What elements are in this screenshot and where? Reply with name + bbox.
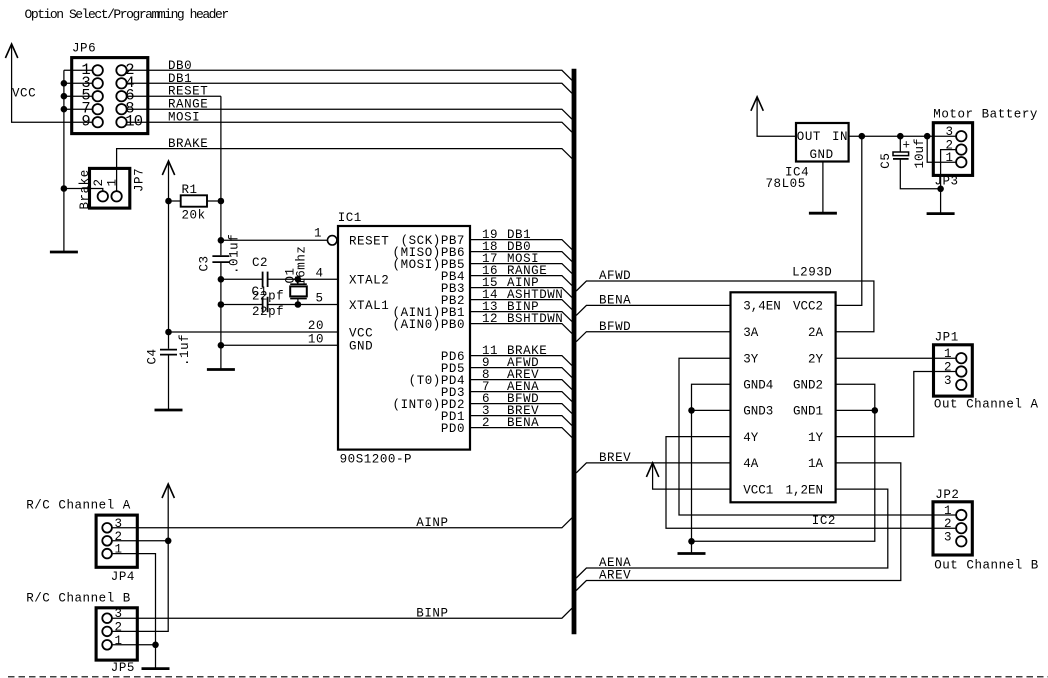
junction JP6 pin7 on ground rail xyxy=(61,106,68,113)
wire IC1 pin 16 RANGE to bus xyxy=(470,276,572,286)
wire IC1 pin 17 MOSI to bus xyxy=(470,264,572,274)
svg-text:IN: IN xyxy=(832,130,848,144)
C1 left plate xyxy=(262,297,264,312)
svg-text:AREV: AREV xyxy=(599,569,631,583)
op IC2 L293D motor driver xyxy=(731,292,836,502)
svg-text:JP4: JP4 xyxy=(111,570,135,584)
svg-text:GND: GND xyxy=(349,340,373,354)
svg-text:GND3: GND3 xyxy=(743,405,773,419)
svg-text:4: 4 xyxy=(315,266,323,280)
connector JP6 (Option Select/Programming header) xyxy=(72,58,148,134)
wire IC2 GND4/GND3 to ground xyxy=(692,384,731,553)
wire JP4 pin 2 to VCC rail xyxy=(112,540,168,542)
svg-text:12: 12 xyxy=(482,312,498,326)
ground symbol below IC2 xyxy=(678,552,706,555)
wire GND to IC1 pin 10 xyxy=(221,344,338,346)
wire IC2 2Y to JP1 pin 1 xyxy=(836,357,957,359)
power symbol VCC at IC4 OUT xyxy=(751,97,763,111)
svg-text:9: 9 xyxy=(81,113,90,131)
svg-text:GND2: GND2 xyxy=(793,379,823,393)
svg-text:BREV: BREV xyxy=(599,451,631,465)
svg-text:20: 20 xyxy=(308,319,324,333)
svg-text:2: 2 xyxy=(115,620,123,634)
wire MOSI from JP6 pin 10 to bus xyxy=(127,122,572,132)
wire BENA from bus to IC2 3,4EN xyxy=(576,305,730,315)
junction IC1 GND pin10 xyxy=(218,342,225,349)
svg-text:PD0: PD0 xyxy=(441,422,465,436)
ground symbol below IC4 xyxy=(809,212,837,215)
ground symbol below C4 xyxy=(155,409,183,412)
C1 right plate xyxy=(267,297,269,312)
wire JP5 pin 1 to ground xyxy=(112,644,156,646)
wire R1 right lead to RESET rail xyxy=(207,200,221,202)
svg-text:2: 2 xyxy=(944,517,952,531)
C5 top lead xyxy=(899,136,901,152)
junction RESET to IC1 xyxy=(218,237,225,244)
wire RESET to IC1 pin 1 xyxy=(221,239,328,241)
wire AFWD from bus to IC2 2A xyxy=(576,281,874,332)
wire IC2 1Y to JP1 pin 2 xyxy=(836,372,957,437)
svg-text:BSHTDWN: BSHTDWN xyxy=(507,312,563,326)
svg-text:DB1: DB1 xyxy=(168,72,192,86)
svg-text:AFWD: AFWD xyxy=(599,269,631,283)
wire VCC to IC1 pin 20 xyxy=(169,331,339,333)
svg-text:20k: 20k xyxy=(182,209,206,223)
svg-text:C3: C3 xyxy=(198,255,212,271)
svg-text:VCC: VCC xyxy=(12,86,36,100)
wire IC1 pin 6 BFWD to bus xyxy=(470,404,572,414)
junction R1 left on VCC rail xyxy=(165,198,172,205)
svg-text:Option Select/Programming head: Option Select/Programming header xyxy=(25,7,229,22)
svg-text:GND4: GND4 xyxy=(743,379,773,393)
svg-text:VCC: VCC xyxy=(349,326,373,340)
svg-text:2Y: 2Y xyxy=(808,353,824,367)
svg-text:2A: 2A xyxy=(808,326,824,340)
svg-text:VCC1: VCC1 xyxy=(743,483,773,497)
junction ground return xyxy=(688,538,695,545)
svg-text:R/C Channel A: R/C Channel A xyxy=(26,499,131,513)
junction JP5 pin1 ground xyxy=(152,642,159,649)
connector JP3 Motor Battery xyxy=(933,123,972,176)
C3 bottom plate xyxy=(212,261,229,263)
wire IC1 pin 9 AFWD to bus xyxy=(470,368,572,378)
svg-text:4A: 4A xyxy=(743,457,759,471)
Q1 bottom stub xyxy=(297,299,299,305)
wire JP3 pin 2 to ground xyxy=(941,150,957,214)
svg-text:1: 1 xyxy=(314,227,322,241)
wire IC4 OUT to VCC arrow xyxy=(757,97,796,136)
svg-text:1: 1 xyxy=(115,634,123,648)
wire IC1 pin 2 BENA to bus xyxy=(470,428,572,438)
svg-text:1: 1 xyxy=(115,543,123,557)
svg-text:2: 2 xyxy=(92,178,106,186)
svg-text:Brake: Brake xyxy=(78,169,92,209)
op IC1 AVR 90S1200-P microcontroller xyxy=(338,226,470,450)
svg-text:3: 3 xyxy=(944,530,952,544)
wire IC1 pin 8 AREV to bus xyxy=(470,380,572,390)
svg-text:3: 3 xyxy=(945,125,953,139)
svg-text:JP5: JP5 xyxy=(111,661,135,675)
svg-text:L293D: L293D xyxy=(792,265,832,279)
ground symbol below JP3 xyxy=(927,212,955,215)
svg-text:IC1: IC1 xyxy=(338,211,362,225)
C3 top plate xyxy=(212,255,229,257)
svg-text:10uf: 10uf xyxy=(913,138,927,168)
junction C5 top xyxy=(897,133,904,140)
wire AINP from JP4 pin 3 to bus xyxy=(112,518,572,528)
op IC4 78L05 regulator xyxy=(796,123,849,162)
bus (signal bundle) xyxy=(572,69,577,635)
JP6 pin circles left column (pins 1,3,5,7,9) xyxy=(93,65,103,75)
svg-text:3,4EN: 3,4EN xyxy=(743,300,781,314)
wire IC1 pin 11 BRAKE to bus xyxy=(470,356,572,366)
wire IC1 pin 12 BSHTDWN to bus xyxy=(470,324,572,334)
connector JP5 R/C Channel B xyxy=(96,608,137,660)
wire XTAL2 to IC1 pin 4 xyxy=(268,278,338,280)
wire DB1 from JP6 pin 4 to bus xyxy=(127,83,572,93)
IC1 pin 1 inverted-pin circle xyxy=(328,236,337,245)
svg-text:JP3: JP3 xyxy=(934,174,958,188)
svg-text:1: 1 xyxy=(944,504,952,518)
wire JP7 pin 2 to ground rail xyxy=(64,189,103,192)
wire JP6 pin 1 to ground rail xyxy=(64,69,93,71)
svg-text:DB0: DB0 xyxy=(168,59,192,73)
connector JP7 (Brake jumper) xyxy=(90,168,130,208)
svg-text:Out Channel A: Out Channel A xyxy=(934,398,1039,412)
wire RESET vertical rail xyxy=(220,96,222,255)
JP6 pin circles right column (pins 2,4,6,8,10) xyxy=(116,65,126,75)
svg-text:2: 2 xyxy=(482,416,490,430)
wire IC2 GND3 stub xyxy=(692,409,731,411)
junction GND1/GND2 xyxy=(872,407,879,414)
junction R1 right on RESET rail xyxy=(218,198,225,205)
svg-text:BRAKE: BRAKE xyxy=(168,137,208,151)
wire RANGE from JP6 pin 8 to bus xyxy=(127,109,572,119)
wire VCC rail JP4/JP5 xyxy=(112,484,168,631)
wire IC4 GND to ground xyxy=(822,162,824,214)
junction Q1 top node xyxy=(295,276,302,283)
junction Q1 bottom node xyxy=(295,301,302,308)
svg-text:C5: C5 xyxy=(879,153,893,169)
junction C1 ground xyxy=(218,301,225,308)
svg-text:VCC2: VCC2 xyxy=(793,300,823,314)
wire C5 bottom to ground node xyxy=(900,159,940,189)
svg-text:RESET: RESET xyxy=(349,235,389,249)
svg-text:+: + xyxy=(903,139,911,153)
svg-text:3: 3 xyxy=(115,607,123,621)
svg-text:GND: GND xyxy=(810,148,834,162)
svg-text:1A: 1A xyxy=(808,457,824,471)
svg-text:BFWD: BFWD xyxy=(599,320,631,334)
svg-text:C4: C4 xyxy=(146,348,160,364)
svg-text:3A: 3A xyxy=(743,326,759,340)
wire JP6 pin 7 to ground rail xyxy=(64,108,93,110)
svg-text:IC2: IC2 xyxy=(812,514,836,528)
svg-text:16mhz: 16mhz xyxy=(295,246,309,286)
wire GND rail below C3 xyxy=(220,263,222,370)
wire JP6 pin 5 to ground rail xyxy=(64,95,93,97)
svg-text:90S1200-P: 90S1200-P xyxy=(340,453,412,467)
svg-text:1: 1 xyxy=(945,151,953,165)
svg-text:3: 3 xyxy=(944,374,952,388)
svg-text:.1uf: .1uf xyxy=(178,334,192,366)
wire BINP from JP5 pin 3 to bus xyxy=(112,608,572,618)
svg-text:22pf: 22pf xyxy=(252,305,284,319)
junction GND3 on ground rail xyxy=(688,407,695,414)
svg-text:OUT: OUT xyxy=(797,130,821,144)
resistor R1 xyxy=(181,195,207,206)
svg-text:XTAL2: XTAL2 xyxy=(349,274,389,288)
Q1 top plate xyxy=(290,283,307,285)
junction JP7 pin2 on ground rail xyxy=(61,185,68,192)
svg-text:1Y: 1Y xyxy=(808,431,824,445)
svg-text:78L05: 78L05 xyxy=(766,177,806,191)
wire ground rail left of JP6 down to ground xyxy=(63,70,65,252)
svg-text:2: 2 xyxy=(944,361,952,375)
svg-text:JP6: JP6 xyxy=(72,42,96,56)
junction JP3 pin1 tap xyxy=(924,133,931,140)
C4 bottom plate xyxy=(160,354,177,356)
svg-text:C2: C2 xyxy=(252,256,268,270)
wire IC1 pin 3 BREV to bus xyxy=(470,416,572,426)
C5 bottom plate xyxy=(893,158,909,160)
junction JP6 pin3 on ground rail xyxy=(61,80,68,87)
svg-text:RESET: RESET xyxy=(168,85,208,99)
svg-text:RANGE: RANGE xyxy=(168,98,208,112)
wire XTAL2 C2 ground side xyxy=(221,278,263,280)
wire XTAL1 C1 ground side xyxy=(221,304,263,306)
svg-text:10: 10 xyxy=(308,332,324,346)
wire IC1 pin 15 AINP to bus xyxy=(470,288,572,298)
C2 right plate xyxy=(267,272,269,287)
wire VCC arrow to IC2 VCC1 xyxy=(653,463,731,489)
svg-text:C1: C1 xyxy=(252,285,268,299)
power symbol VCC (top-left) xyxy=(5,44,17,58)
C2 left plate xyxy=(262,272,264,287)
svg-text:BENA: BENA xyxy=(599,294,631,308)
wire IC1 pin 7 AENA to bus xyxy=(470,392,572,402)
svg-text:R1: R1 xyxy=(182,183,198,197)
svg-text:GND1: GND1 xyxy=(793,405,823,419)
junction VCC to IC1 pin20 xyxy=(165,329,172,336)
connector JP4 R/C Channel A xyxy=(96,515,137,567)
svg-text:JP1: JP1 xyxy=(935,330,959,344)
wire IC1 pin 18 DB0 to bus xyxy=(470,252,572,262)
svg-text:4Y: 4Y xyxy=(743,431,759,445)
wire JP4 pin 1 to ground rail xyxy=(112,554,156,669)
power symbol VCC at JP4/JP5 xyxy=(162,484,174,498)
svg-text:JP7: JP7 xyxy=(132,168,146,192)
wire JP6 pin 3 to ground rail xyxy=(64,82,93,84)
wire IC2 GND2 down xyxy=(836,384,875,410)
ground symbol below C3 rail xyxy=(207,368,235,371)
svg-text:1,2EN: 1,2EN xyxy=(785,483,823,497)
wire IC1 pin 14 ASHTDWN to bus xyxy=(470,300,572,310)
wire R1 left lead xyxy=(169,200,181,202)
wire IC1 pin 19 DB1 to bus xyxy=(470,240,572,250)
junction C2 ground xyxy=(218,276,225,283)
svg-text:JP2: JP2 xyxy=(935,488,959,502)
wire AREV from bus to IC2 1A xyxy=(576,463,901,591)
svg-text:BINP: BINP xyxy=(416,606,448,620)
svg-text:MOSI: MOSI xyxy=(168,111,200,125)
wire IC2 VCC2 up to battery rail xyxy=(836,136,862,305)
wire IC2 GND1 to ground return xyxy=(692,410,875,541)
connector JP2 Out Channel B xyxy=(933,502,972,555)
wire JP3 pin 1 tap xyxy=(927,136,956,162)
power symbol VCC at IC2 VCC1 xyxy=(646,463,658,477)
wire IC4 IN to JP3 pin 3 xyxy=(849,135,957,137)
wire BFWD from bus to IC2 3A xyxy=(576,332,730,342)
junction JP4 pin2 VCC xyxy=(165,538,172,545)
C4 top plate xyxy=(160,349,177,351)
wire XTAL1 to IC1 pin 5 xyxy=(268,304,338,306)
sheet border (dashed) xyxy=(8,676,1048,678)
wire IC1 pin 13 BINP to bus xyxy=(470,312,572,322)
ground symbol below JP5 xyxy=(142,667,170,670)
wire RESET from JP6 pin 6 xyxy=(127,95,221,97)
wire BRAKE from JP7 pin 1 to bus xyxy=(117,149,572,192)
svg-text:1: 1 xyxy=(105,178,119,186)
wire VCC to JP6 pin 9 xyxy=(12,44,93,122)
wire BREV from bus to IC2 4A xyxy=(576,463,730,473)
wire IC2 3Y to JP2 pin 1 xyxy=(679,358,956,515)
svg-text:(AIN0)PB0: (AIN0)PB0 xyxy=(393,318,465,332)
svg-text:3Y: 3Y xyxy=(743,353,759,367)
wire DB0 from JP6 pin 2 to bus xyxy=(127,70,572,80)
wire VCC arrow to R1 and down rail xyxy=(168,161,170,349)
power symbol VCC at R1 xyxy=(162,161,174,175)
svg-text:R/C Channel B: R/C Channel B xyxy=(26,591,131,605)
svg-text:5: 5 xyxy=(315,292,323,306)
Q1 bottom plate xyxy=(290,298,307,300)
svg-text:1: 1 xyxy=(944,347,952,361)
junction battery rail to IC2 VCC2 xyxy=(859,133,866,140)
Q1 top stub xyxy=(297,279,299,284)
connector JP1 Out Channel A xyxy=(934,345,973,396)
wire IC2 4Y to JP2 pin 2 xyxy=(666,437,956,529)
ground symbol below JP6 rail xyxy=(50,251,78,254)
junction JP6 pin5 on ground rail xyxy=(61,93,68,100)
svg-text:BENA: BENA xyxy=(507,416,539,430)
svg-text:Out Channel B: Out Channel B xyxy=(934,559,1039,573)
wire AENA from bus to IC2 1,2EN xyxy=(576,489,888,578)
junction C5/JP3 pin2 ground xyxy=(937,186,944,193)
svg-text:Motor Battery: Motor Battery xyxy=(933,107,1038,121)
svg-text:3: 3 xyxy=(115,517,123,531)
svg-text:XTAL1: XTAL1 xyxy=(349,299,389,313)
wire C4 to ground xyxy=(168,356,170,411)
svg-text:AINP: AINP xyxy=(416,516,448,530)
